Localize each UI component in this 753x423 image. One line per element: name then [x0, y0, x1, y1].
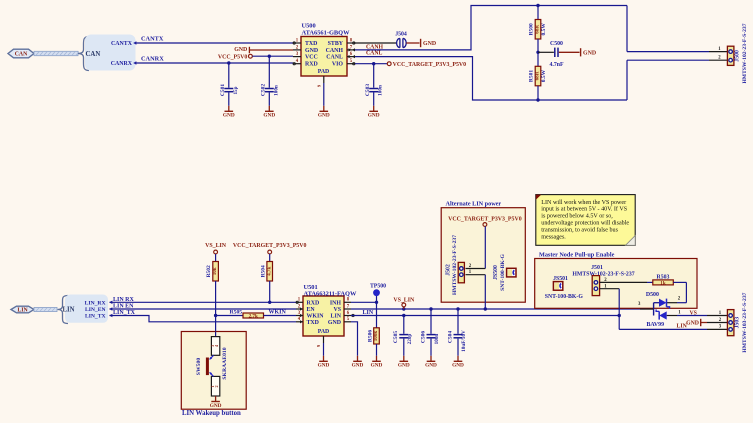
svg-text:STBY: STBY: [328, 41, 344, 47]
svg-text:ATA6561-GBQW: ATA6561-GBQW: [302, 29, 351, 36]
svg-text:GND: GND: [583, 50, 596, 56]
svg-text:GND: GND: [423, 41, 436, 47]
svg-text:CANTX: CANTX: [111, 41, 133, 47]
svg-text:LIN: LIN: [331, 314, 342, 320]
svg-text:input is at between 5V - 40V.: input is at between 5V - 40V. If VS: [541, 206, 627, 213]
svg-text:VS_LIN: VS_LIN: [205, 243, 227, 249]
svg-text:VCC_TARGET_P3V3_P5V0: VCC_TARGET_P3V3_P5V0: [448, 217, 522, 223]
svg-text:LIN will work when the VS powe: LIN will work when the VS power: [541, 200, 626, 206]
svg-text:WKIN: WKIN: [269, 310, 287, 316]
svg-text:CANRX: CANRX: [141, 55, 164, 62]
svg-text:GND: GND: [368, 113, 380, 119]
svg-text:68R: 68R: [535, 25, 541, 34]
svg-text:D500: D500: [646, 292, 659, 298]
svg-text:TXD: TXD: [307, 320, 319, 326]
svg-text:VCC: VCC: [305, 55, 318, 61]
svg-text:GND: GND: [371, 363, 383, 369]
svg-text:CANRX: CANRX: [111, 61, 133, 67]
svg-text:EN: EN: [307, 307, 316, 313]
svg-text:GND: GND: [686, 321, 699, 327]
svg-text:C505: C505: [393, 331, 399, 343]
svg-text:J503: J503: [735, 317, 741, 329]
svg-text:10k: 10k: [212, 267, 218, 275]
svg-text:100n: 100n: [434, 334, 440, 345]
svg-text:PAD: PAD: [318, 329, 329, 335]
svg-text:LIN: LIN: [63, 307, 75, 314]
svg-text:HMTSW-102-23-F-S-237: HMTSW-102-23-F-S-237: [572, 271, 634, 277]
svg-text:LIN: LIN: [363, 310, 374, 316]
svg-text:LIN_TX: LIN_TX: [85, 314, 106, 320]
svg-text:J500: J500: [735, 50, 741, 62]
svg-text:100k: 100k: [373, 331, 379, 342]
svg-text:J502: J502: [445, 264, 451, 276]
svg-text:transmission, to avoid false b: transmission, to avoid false bus: [541, 226, 618, 233]
svg-text:R503: R503: [657, 274, 670, 280]
svg-text:VCC_TARGET_P3V3_P5V0: VCC_TARGET_P3V3_P5V0: [233, 243, 307, 249]
svg-text:GND: GND: [305, 48, 318, 54]
svg-text:GND: GND: [425, 363, 437, 369]
svg-text:220p: 220p: [407, 334, 413, 345]
svg-text:WKIN: WKIN: [307, 314, 325, 320]
svg-text:C502: C502: [260, 84, 266, 96]
svg-text:R505: R505: [230, 310, 243, 316]
svg-text:GND: GND: [452, 363, 464, 369]
svg-text:U500: U500: [302, 22, 316, 29]
svg-text:GND: GND: [352, 363, 364, 369]
svg-text:RXD: RXD: [307, 300, 320, 306]
svg-text:CANTX: CANTX: [141, 35, 164, 42]
svg-text:BAV99: BAV99: [647, 322, 665, 328]
svg-text:JS500: JS500: [493, 265, 499, 280]
svg-text:1k: 1k: [660, 281, 666, 287]
svg-text:C503: C503: [365, 84, 371, 96]
svg-text:VCC_P5V0: VCC_P5V0: [218, 54, 248, 60]
svg-text:GND: GND: [234, 47, 247, 53]
svg-text:100n: 100n: [378, 85, 384, 96]
svg-text:C504: C504: [447, 331, 453, 343]
svg-text:VIO: VIO: [332, 62, 344, 68]
svg-text:100n: 100n: [273, 85, 279, 96]
svg-text:SNT-100-BK-G: SNT-100-BK-G: [500, 253, 506, 290]
svg-text:INH: INH: [330, 300, 342, 306]
svg-text:Master Node Pull-up Enable: Master Node Pull-up Enable: [539, 252, 615, 259]
svg-text:TXD: TXD: [305, 41, 317, 47]
svg-text:2.7k: 2.7k: [249, 313, 258, 319]
svg-text:4.7k: 4.7k: [266, 267, 272, 276]
svg-text:GND: GND: [318, 113, 330, 119]
svg-text:RXD: RXD: [305, 62, 318, 68]
svg-text:J504: J504: [395, 32, 407, 38]
svg-text:CANH: CANH: [326, 48, 344, 54]
svg-text:SNT-100-BK-G: SNT-100-BK-G: [545, 294, 584, 300]
svg-text:2: 2: [214, 385, 219, 387]
svg-text:GND: GND: [210, 403, 222, 409]
svg-text:C500: C500: [550, 41, 563, 47]
svg-text:15p: 15p: [233, 86, 239, 94]
svg-text:is powered below 4.5V or so,: is powered below 4.5V or so,: [541, 214, 613, 220]
svg-text:HMTSW-102-23-F-S-237: HMTSW-102-23-F-S-237: [452, 235, 458, 295]
svg-text:4.7nF: 4.7nF: [549, 62, 563, 68]
svg-text:SKRAAE010: SKRAAE010: [222, 347, 228, 379]
svg-text:undervoltage protection will d: undervoltage protection will disable: [541, 221, 629, 227]
svg-text:LIN: LIN: [17, 308, 28, 314]
svg-text:GND: GND: [318, 363, 330, 369]
svg-text:0.5W: 0.5W: [541, 23, 547, 36]
svg-text:GND: GND: [223, 113, 235, 119]
svg-text:JS501: JS501: [553, 276, 568, 282]
svg-text:0.5W: 0.5W: [541, 69, 547, 82]
svg-text:GND: GND: [263, 113, 275, 119]
svg-text:ATA663211-FAQW: ATA663211-FAQW: [304, 290, 358, 297]
svg-text:68R: 68R: [535, 71, 541, 80]
svg-text:LIN_EN: LIN_EN: [85, 307, 106, 313]
svg-text:VS: VS: [690, 311, 697, 317]
svg-text:J501: J501: [591, 265, 603, 271]
svg-text:VS: VS: [333, 307, 341, 313]
svg-text:CANL: CANL: [326, 55, 343, 61]
svg-text:GND: GND: [328, 320, 341, 326]
svg-text:PAD: PAD: [318, 69, 329, 75]
svg-text:VCC_TARGET_P3V3_P5V0: VCC_TARGET_P3V3_P5V0: [393, 62, 467, 68]
svg-text:LIN_RX: LIN_RX: [85, 300, 106, 306]
svg-text:10uF/50V: 10uF/50V: [461, 330, 467, 352]
svg-text:LIN Wakeup button: LIN Wakeup button: [182, 410, 241, 417]
svg-text:C501: C501: [220, 84, 226, 96]
svg-text:HMTSW-102-23-F-S-237: HMTSW-102-23-F-S-237: [742, 23, 748, 83]
svg-text:CAN: CAN: [15, 52, 28, 58]
svg-text:GND: GND: [398, 363, 410, 369]
svg-text:HMTSW-103-23-F-S-237: HMTSW-103-23-F-S-237: [742, 292, 748, 352]
svg-text:Alternate LIN power: Alternate LIN power: [446, 201, 502, 208]
svg-text:SW500: SW500: [196, 358, 202, 376]
svg-text:CANL: CANL: [366, 51, 383, 57]
svg-text:TP500: TP500: [370, 284, 386, 290]
svg-text:C506: C506: [420, 331, 426, 343]
svg-text:messages.: messages.: [541, 234, 566, 240]
svg-text:CAN: CAN: [86, 51, 101, 58]
